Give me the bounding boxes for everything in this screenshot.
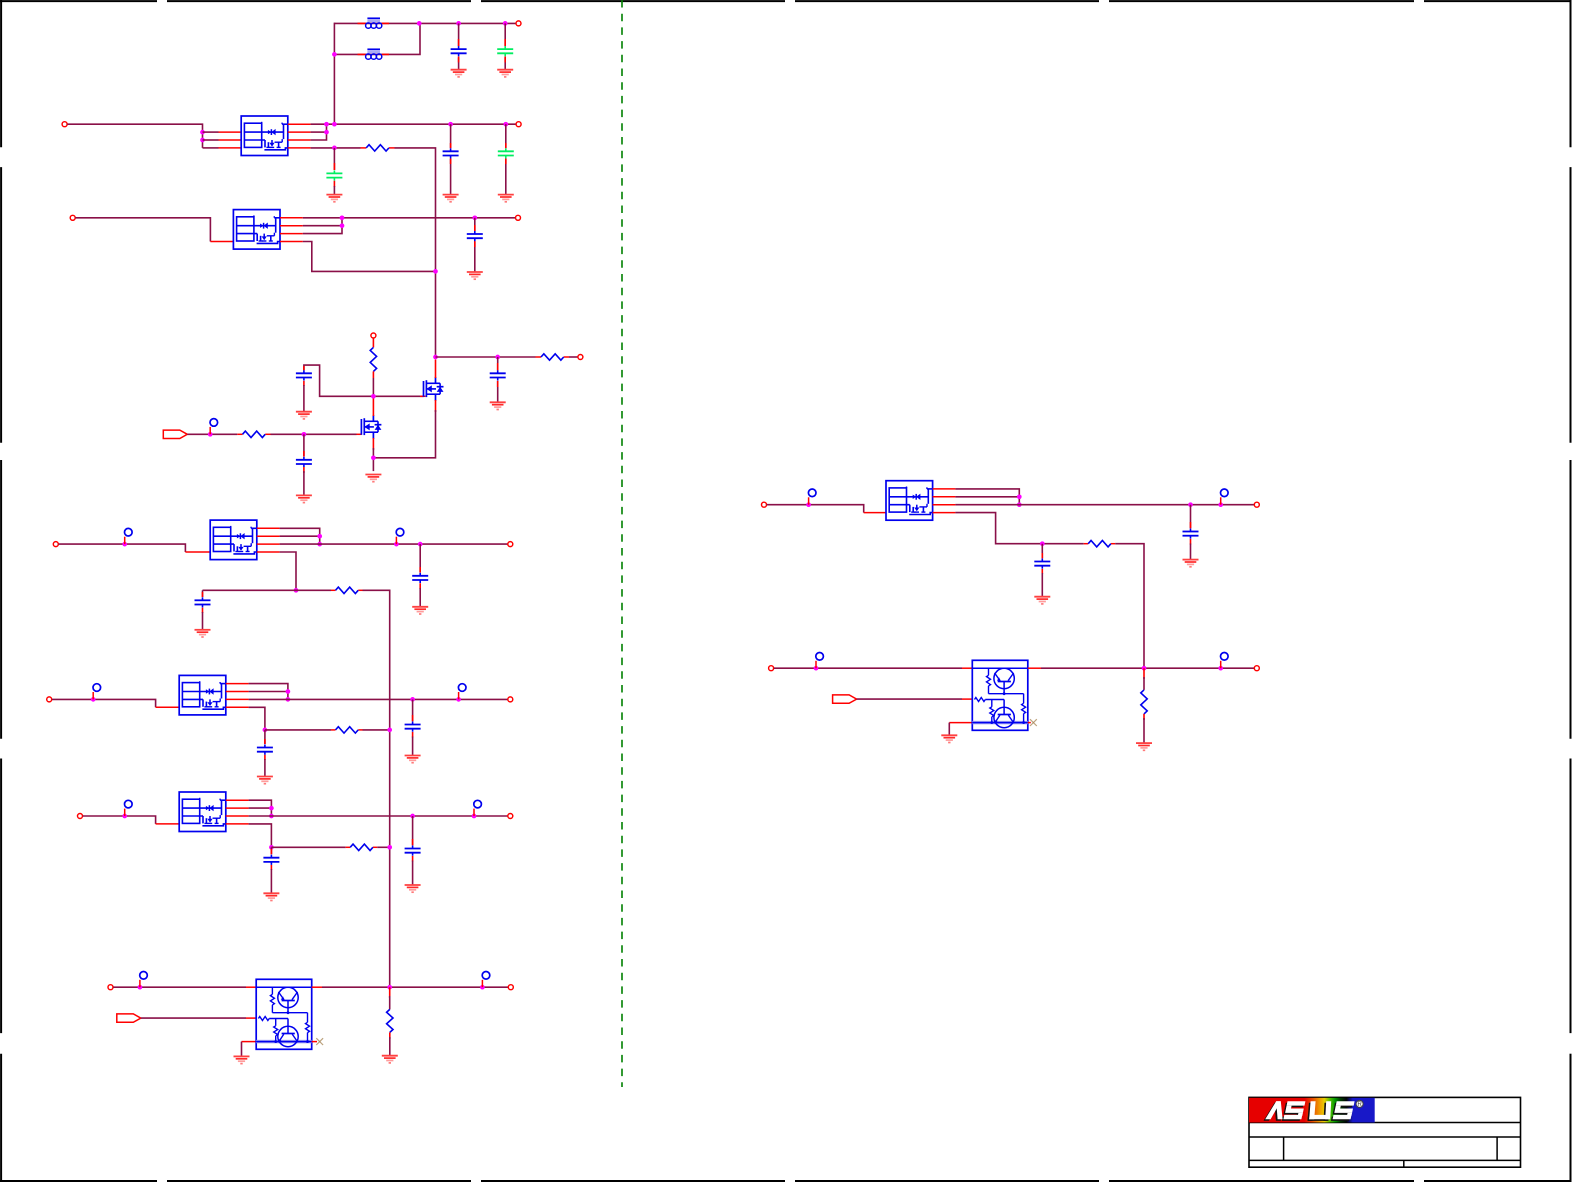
junction [269, 814, 274, 819]
load switch U1 [241, 116, 288, 156]
port [108, 985, 113, 990]
wire [249, 691, 288, 693]
junction [122, 814, 127, 819]
wire [303, 471, 305, 495]
junction [448, 122, 453, 127]
wire [303, 218, 342, 234]
wire [1190, 505, 1192, 529]
wire [1115, 544, 1144, 669]
wire [334, 23, 420, 54]
wire [1041, 544, 1043, 559]
wire [333, 23, 335, 125]
wire [955, 489, 1019, 505]
port [508, 542, 513, 547]
pin [1084, 543, 1116, 545]
wire [767, 505, 864, 513]
wire [412, 699, 414, 721]
wire [395, 148, 436, 357]
junction [332, 146, 337, 151]
pin [1041, 553, 1043, 574]
inductor L1 [366, 18, 382, 28]
resistor R3 [541, 354, 564, 360]
pin [312, 986, 322, 988]
pin [219, 132, 242, 148]
pin [270, 849, 272, 870]
ground [443, 195, 459, 202]
wire [569, 356, 578, 358]
wire [303, 242, 436, 272]
ground [296, 495, 312, 502]
port [78, 814, 83, 819]
pin [288, 124, 311, 148]
ground [195, 630, 211, 637]
wire [333, 148, 335, 170]
resistor R10 [1141, 690, 1147, 714]
junction [1017, 494, 1022, 499]
pin [1028, 667, 1041, 669]
junction [472, 215, 477, 220]
wire [1143, 677, 1145, 690]
test point [482, 972, 490, 988]
junction [433, 355, 438, 360]
wire [436, 356, 536, 358]
wire [333, 186, 335, 195]
test point [1221, 489, 1229, 505]
wire [280, 535, 320, 537]
capacitor C2 [497, 46, 513, 56]
wire [458, 23, 460, 69]
wire [955, 513, 1083, 544]
junction [433, 269, 438, 274]
port [516, 215, 521, 220]
junction [410, 697, 415, 702]
transistor Q1 [424, 377, 444, 401]
junction [332, 122, 337, 127]
wire [373, 410, 435, 458]
pin [226, 800, 249, 824]
wire [52, 699, 156, 707]
pin [505, 143, 507, 164]
wire [265, 729, 331, 731]
io tag [163, 430, 187, 438]
pin [303, 451, 305, 473]
wire [59, 544, 186, 552]
junction [269, 806, 274, 811]
pin [312, 1041, 317, 1043]
junction [324, 122, 329, 127]
svg-text:R: R [1357, 1101, 1362, 1108]
port [53, 542, 58, 547]
wire [303, 434, 305, 456]
capacitor C5 [498, 148, 514, 158]
capacitor C15 [405, 846, 421, 856]
wire [270, 869, 272, 893]
junction [208, 432, 213, 437]
wire [303, 385, 305, 412]
capacitor C7 [296, 370, 312, 380]
wire [412, 816, 414, 845]
pin [1028, 722, 1031, 724]
junction [418, 542, 423, 547]
sheet border top [0, 0, 1572, 2]
junction [472, 814, 477, 819]
pin [202, 592, 204, 613]
wire [505, 124, 507, 194]
ground [263, 893, 279, 900]
wire [377, 846, 390, 848]
wire [270, 847, 272, 854]
ground [405, 756, 421, 763]
pin [246, 1017, 256, 1019]
junction [417, 21, 422, 26]
wire [955, 504, 1254, 506]
ground [296, 412, 312, 419]
pin [264, 739, 266, 760]
port [762, 502, 767, 507]
capacitor C10 [195, 597, 211, 607]
junction [340, 215, 345, 220]
transistor pack Q3 [256, 979, 312, 1049]
capacitor C17 [1183, 529, 1199, 539]
load switch U4 [179, 675, 226, 715]
wire [76, 218, 211, 242]
sheet border bottom [0, 1180, 1572, 1182]
junction [332, 52, 337, 57]
pin [389, 987, 391, 998]
port [47, 697, 52, 702]
capacitor C1 [451, 46, 467, 56]
pin [372, 338, 374, 347]
test point [140, 972, 148, 988]
capacitor C14 [263, 855, 279, 865]
pin [303, 366, 305, 386]
wire [311, 131, 327, 133]
wire [955, 496, 1019, 498]
junction [1142, 666, 1147, 671]
pin [389, 1032, 391, 1039]
pin [474, 225, 476, 247]
wire [412, 737, 414, 756]
wire [271, 433, 357, 435]
ground [1034, 597, 1050, 604]
title block [1249, 1097, 1521, 1167]
test point [93, 684, 101, 700]
test point [1221, 653, 1229, 669]
test point [210, 419, 218, 435]
wire [1041, 667, 1254, 669]
junction [387, 985, 392, 990]
resistor R8 [387, 1009, 393, 1032]
junction [294, 588, 299, 593]
port [62, 122, 67, 127]
pin [1143, 714, 1145, 720]
wire [187, 433, 237, 435]
ground [1183, 560, 1199, 567]
junction [456, 697, 461, 702]
pin [346, 846, 378, 848]
resistor R7 [350, 844, 373, 850]
wire [241, 1042, 243, 1057]
junction [340, 223, 345, 228]
sheet border right [1570, 0, 1572, 1182]
wire [280, 528, 320, 544]
capacitor C13 [405, 722, 421, 732]
pin [185, 551, 210, 553]
junction [200, 130, 205, 135]
wire [249, 707, 265, 730]
junction [814, 666, 819, 671]
pin [358, 22, 390, 24]
wire [304, 365, 424, 396]
wire [372, 448, 374, 471]
resistor R5 [336, 587, 359, 593]
junction [1017, 502, 1022, 507]
test point [808, 489, 816, 505]
ground [257, 777, 273, 784]
pin [864, 512, 886, 514]
junction [387, 845, 392, 850]
junction [495, 355, 500, 360]
test point [125, 528, 133, 544]
wire [202, 590, 204, 597]
wire [67, 124, 202, 148]
wire [83, 816, 156, 824]
wire [504, 23, 506, 69]
wire [280, 543, 508, 545]
capacitor C9 [296, 457, 312, 467]
wire [1143, 718, 1145, 743]
wire [249, 815, 508, 817]
junction [122, 542, 127, 547]
pin [237, 433, 270, 435]
wire [774, 667, 962, 669]
junction [263, 728, 268, 733]
pin [361, 147, 395, 149]
pin [412, 715, 414, 738]
pin [333, 163, 335, 187]
io tag [833, 695, 857, 703]
test point [125, 800, 133, 816]
transistor pack Q4 [972, 660, 1028, 730]
test point [474, 800, 482, 816]
wire [311, 124, 327, 140]
transistor Q2 [361, 415, 381, 439]
pin [420, 395, 425, 397]
capacitor C12 [257, 745, 273, 755]
junction [387, 728, 392, 733]
test point [458, 684, 466, 700]
junction [1218, 502, 1223, 507]
load switch U5 [179, 792, 226, 832]
wire [113, 986, 246, 988]
wire [264, 759, 266, 777]
capacitor C8 [490, 370, 506, 380]
junction [286, 689, 291, 694]
pin [949, 722, 972, 724]
wire [203, 132, 219, 148]
pin [458, 39, 460, 62]
capacitor C16 [1034, 559, 1050, 569]
wire [363, 590, 390, 987]
wire [311, 123, 516, 125]
wire [1041, 573, 1043, 597]
wire [363, 729, 390, 731]
junction [371, 394, 376, 399]
junction [317, 534, 322, 539]
ground [412, 607, 428, 614]
ASUS logo [1249, 1098, 1375, 1123]
ground [365, 475, 381, 482]
port [508, 814, 513, 819]
page partition dashed line [621, 0, 623, 1087]
no-connect [1030, 719, 1037, 726]
resistor R6 [336, 727, 359, 733]
resistor R4 [243, 431, 266, 437]
port [516, 122, 521, 127]
wire [141, 1017, 246, 1019]
pin [504, 39, 506, 62]
resistor R9 [1088, 541, 1111, 547]
wire [857, 698, 962, 700]
pin [242, 1041, 257, 1043]
junction [200, 138, 205, 143]
ground [234, 1056, 250, 1063]
load switch U3 [210, 520, 257, 560]
wire [372, 378, 374, 396]
wire [249, 807, 272, 809]
pin [331, 589, 363, 591]
capacitor C4 [443, 148, 459, 158]
junction [480, 985, 485, 990]
ground [467, 272, 483, 279]
junction [806, 502, 811, 507]
junction [317, 542, 322, 547]
wire [389, 996, 391, 1009]
resistor R1 [366, 145, 389, 151]
ground [405, 885, 421, 892]
pin [156, 706, 180, 708]
wire [412, 861, 414, 886]
wire [1190, 544, 1192, 560]
pin [1143, 668, 1145, 679]
junction [269, 845, 274, 850]
wire [948, 723, 950, 736]
wire [389, 1037, 391, 1056]
load switch U6 [886, 481, 933, 521]
pin [357, 433, 362, 435]
io tag [117, 1014, 141, 1022]
pin [933, 489, 956, 513]
junction [410, 814, 415, 819]
wire [419, 544, 421, 572]
ground [941, 735, 957, 742]
wire [311, 147, 361, 149]
test point [816, 653, 824, 669]
pin [419, 567, 421, 589]
port [1254, 502, 1259, 507]
pin [246, 986, 256, 988]
pin [257, 528, 280, 552]
wire [303, 225, 342, 227]
port [516, 21, 521, 26]
port [1254, 666, 1259, 671]
inductor L2 [366, 49, 382, 59]
capacitor C6 [467, 231, 483, 241]
pin [962, 698, 972, 700]
ground [382, 1056, 398, 1063]
junction [1218, 666, 1223, 671]
wire [249, 824, 272, 847]
junction [503, 21, 508, 26]
wire [202, 612, 204, 630]
wire [303, 217, 516, 219]
port [371, 333, 376, 338]
pin [280, 218, 303, 242]
port [508, 985, 513, 990]
pin [156, 823, 180, 825]
port [70, 215, 75, 220]
junction [1040, 541, 1045, 546]
port [578, 355, 583, 360]
wire [474, 218, 476, 272]
pin [435, 360, 437, 413]
pin [536, 356, 570, 358]
wire [264, 730, 266, 744]
junction [394, 542, 399, 547]
junction [456, 21, 461, 26]
ground [326, 195, 342, 202]
wire [249, 698, 508, 700]
ground [1136, 743, 1152, 750]
junction [503, 122, 508, 127]
junction [302, 432, 307, 437]
pin [372, 399, 374, 451]
junction [286, 697, 291, 702]
wire [334, 22, 515, 24]
capacitor C11 [412, 573, 428, 583]
junction [371, 455, 376, 460]
pin [412, 839, 414, 862]
wire [450, 124, 452, 194]
pin [372, 371, 374, 378]
capacitor C3 [326, 170, 342, 180]
pin [210, 241, 233, 243]
no-connect [316, 1038, 323, 1045]
resistor R2 [370, 347, 376, 371]
ground [498, 195, 514, 202]
pin [331, 729, 363, 731]
pin [962, 667, 972, 669]
ground [490, 402, 506, 409]
junction [1188, 502, 1193, 507]
sheet border left [0, 0, 2, 1182]
junction [91, 697, 96, 702]
junction [138, 985, 143, 990]
wire [280, 552, 296, 590]
pin [358, 53, 390, 55]
wire [249, 684, 288, 700]
wire [249, 800, 272, 816]
test point [396, 528, 404, 544]
pin [1190, 522, 1192, 545]
wire [322, 986, 508, 988]
load switch U2 [233, 210, 280, 250]
wire [419, 588, 421, 607]
ground [497, 70, 513, 77]
port [508, 697, 513, 702]
wire [203, 589, 332, 591]
pin [226, 684, 249, 708]
